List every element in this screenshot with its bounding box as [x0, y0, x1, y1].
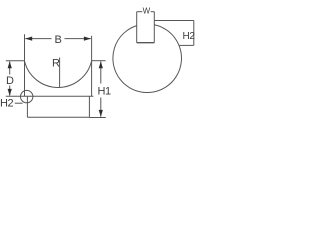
H2 bracket right — [193, 21, 195, 46]
arrow B left — [25, 37, 32, 41]
right edge upper block — [91, 61, 93, 96]
H1 extension bottom — [89, 117, 105, 119]
right view: circle with keyway slot — [113, 25, 182, 93]
B extension line right — [91, 36, 93, 61]
svg-text:H2: H2 — [183, 31, 196, 42]
lower block left edge — [26, 96, 28, 117]
B extension line left — [24, 34, 26, 61]
svg-text:W: W — [143, 6, 151, 15]
W dimension line — [137, 11, 143, 13]
H2 bracket bottom — [179, 44, 194, 46]
arrow H1 down — [99, 110, 103, 117]
lower block bottom edge — [27, 116, 89, 118]
svg-text:R: R — [52, 58, 60, 70]
H1 dimension line — [100, 61, 102, 83]
H1 extension top — [92, 60, 106, 62]
arrow H1 up — [99, 61, 103, 68]
svg-text:D: D — [6, 75, 14, 87]
D extension line top — [6, 60, 25, 62]
left edge upper block — [24, 61, 26, 96]
slot bottom — [137, 42, 155, 44]
flange bottom edge (with D extension to left) — [6, 95, 94, 97]
slot right wall + W extension — [153, 12, 155, 43]
H2 leader — [15, 102, 23, 104]
svg-text:B: B — [55, 34, 62, 46]
cradle arc R — [25, 61, 92, 87]
lower block right edge — [88, 96, 90, 117]
arrow D down — [8, 89, 12, 96]
D dimension line — [9, 61, 11, 74]
svg-text:H1: H1 — [98, 86, 112, 98]
arrow D up — [8, 61, 12, 68]
R leader line — [59, 58, 61, 88]
slot left wall + W extension — [136, 12, 138, 43]
H2 callout circle — [21, 90, 33, 102]
H2 bracket top — [154, 20, 194, 22]
arrow B right — [84, 37, 91, 41]
svg-text:H2: H2 — [0, 98, 14, 110]
B dimension line — [25, 38, 51, 40]
